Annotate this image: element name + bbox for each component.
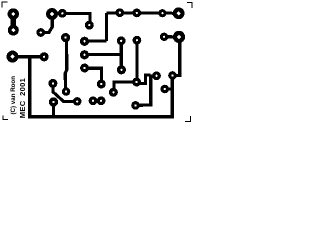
pad p26	[62, 87, 70, 95]
pad p9	[36, 28, 45, 37]
hole p29	[92, 100, 94, 102]
pad p7	[58, 9, 67, 18]
pad P2	[8, 25, 19, 36]
pad p28	[73, 97, 82, 106]
hole p12	[83, 54, 85, 56]
pad p12	[80, 50, 89, 59]
wire pad1-pad2 vertical	[11, 14, 16, 30]
wire right bus vertical up to pad33	[171, 76, 174, 117]
wire pad27 stub down to bus	[52, 102, 55, 115]
wire pad3 down kink to pad9	[41, 14, 53, 33]
pad p16	[133, 36, 142, 45]
wire pad12 to vertical A	[85, 53, 122, 56]
wire pad13 elbow down to pad24	[85, 68, 102, 84]
hole P5	[176, 11, 180, 15]
corner mark bottom-left	[3, 116, 8, 120]
pad p22	[132, 78, 141, 87]
wire top rail	[107, 11, 179, 15]
hole p30	[100, 100, 102, 102]
pad p19	[132, 9, 141, 18]
hole P2	[11, 28, 15, 32]
wire pad4 to pad14	[13, 55, 45, 58]
pad p18	[115, 8, 124, 17]
wire pad25 down diagonal to pad28	[53, 83, 77, 101]
hole p15	[120, 40, 122, 42]
hole p21	[120, 69, 122, 71]
wire vertical B pad16-pad22	[135, 40, 138, 82]
pad p24	[97, 80, 106, 89]
hole p32	[155, 75, 157, 77]
hole p9	[40, 31, 42, 33]
pad p23	[109, 88, 118, 97]
pad p34	[161, 85, 170, 94]
hole p17	[161, 12, 163, 14]
wire pad10 down to pad26	[65, 38, 67, 92]
pad p14	[40, 52, 49, 61]
hole p31	[134, 104, 136, 106]
pad p33	[168, 71, 177, 80]
pad p10	[61, 33, 70, 42]
pad p15	[117, 36, 126, 45]
pad p32	[152, 71, 161, 80]
pad P5	[173, 7, 185, 19]
hole p26	[65, 90, 67, 92]
pad p21	[117, 65, 126, 74]
hole P6	[177, 35, 181, 39]
pad p29	[89, 96, 98, 105]
wire vertical C down elbow to pad31	[136, 75, 151, 106]
hole P1	[11, 12, 15, 16]
pad p11	[80, 37, 89, 46]
pad p13	[80, 64, 89, 73]
pad p17	[158, 9, 166, 17]
hole p23	[112, 91, 114, 93]
hole p20	[163, 36, 165, 38]
hole p33	[171, 74, 173, 76]
hole p10	[64, 36, 66, 38]
svg-text:MEC 2001: MEC 2001	[18, 77, 27, 118]
hole p22	[135, 81, 137, 83]
hole p27	[52, 101, 54, 103]
hole p34	[164, 88, 166, 90]
pad P6	[173, 31, 185, 43]
wire vertical A pad15-pad21	[120, 41, 123, 70]
hole p18	[119, 12, 121, 14]
hole p19	[136, 12, 138, 14]
hole p25	[52, 82, 54, 84]
corner mark top-right	[187, 3, 192, 9]
wire tee down to bottom bus	[28, 57, 32, 117]
wire vertical C stub to pad32	[151, 74, 154, 77]
wire pad6 down elbow to pad33	[173, 37, 180, 76]
hole P3	[50, 12, 54, 16]
hole p24	[100, 83, 102, 85]
hole p7	[61, 12, 63, 14]
wire pad22 left elbow down to pad23	[114, 82, 137, 92]
hole p13	[83, 67, 85, 69]
pad P3	[46, 8, 58, 20]
pad p25	[48, 79, 57, 88]
wire bottom bus	[28, 115, 174, 119]
wire pad20 to pad6	[164, 35, 179, 38]
wire top rail elbow down	[105, 13, 108, 41]
wire pad29-pad30 link	[93, 99, 101, 102]
hole p8	[88, 24, 90, 26]
corner mark top-left	[2, 2, 8, 8]
hole p28	[76, 100, 78, 102]
pad P4	[7, 51, 19, 63]
svg-text:(C) van Roon: (C) van Roon	[10, 76, 17, 115]
wire pad7 right elbow down to pad8	[62, 13, 90, 25]
hole p14	[43, 56, 45, 58]
wire pad22 jog right up to vertical C	[137, 75, 151, 84]
wire pad11 to rail elbow	[85, 39, 107, 42]
pad p31	[131, 101, 140, 110]
corner mark bottom-right	[185, 116, 191, 122]
wire pad34 stub to right bus	[165, 88, 172, 91]
pad p8	[85, 21, 94, 30]
wire pad3 to pad7	[52, 12, 62, 16]
pad p30	[97, 96, 106, 105]
pad P1	[8, 8, 19, 19]
hole P4	[10, 54, 14, 58]
pad p27	[49, 97, 58, 106]
pad p20	[160, 33, 168, 41]
hole p11	[83, 40, 85, 42]
hole p16	[136, 39, 138, 41]
